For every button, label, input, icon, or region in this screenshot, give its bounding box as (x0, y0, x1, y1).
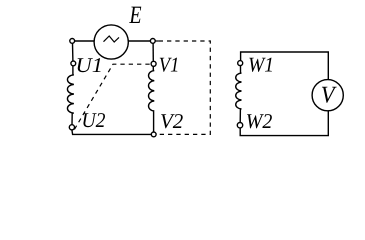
node V1 (151, 61, 156, 66)
right circuit: top wire W1 to voltmeter branch (241, 52, 329, 79)
wire: left terminal down to U1 (72, 43, 74, 61)
svg-text:V2: V2 (160, 109, 184, 133)
node U1 (71, 61, 76, 66)
svg-text:E: E (129, 2, 142, 29)
voltmeter V (312, 80, 343, 111)
node: source right terminal (150, 39, 155, 44)
svg-text:U1: U1 (76, 53, 104, 77)
svg-text:V1: V1 (159, 52, 180, 76)
svg-text:W1: W1 (248, 53, 274, 77)
dashed link: U2 to V1 (diagonal + horizontal) (74, 64, 151, 129)
wire: U2 jog to bottom rail (72, 130, 151, 135)
winding V1-V2 (coil) (149, 66, 155, 132)
sine symbol inside source (104, 36, 120, 42)
ac source E (94, 25, 128, 59)
wire: source left lead (75, 40, 95, 42)
wire: right terminal down to V1 (152, 43, 154, 61)
wire: source right lead (128, 40, 150, 42)
node W2 (237, 123, 242, 128)
svg-text:V: V (321, 83, 337, 109)
node V2 (151, 132, 156, 137)
winding U1-U2 (coil) (67, 66, 73, 125)
winding W1-W2 (coil) (236, 66, 242, 123)
svg-text:W2: W2 (246, 109, 273, 133)
dashed rectangle: alternative connection to V2 (155, 40, 159, 42)
wire: W2 down and bottom rail to voltmeter (240, 111, 328, 136)
svg-text:U2: U2 (82, 108, 106, 132)
node U2 (69, 125, 74, 130)
node: source left terminal (70, 39, 75, 44)
node W1 (238, 61, 243, 66)
